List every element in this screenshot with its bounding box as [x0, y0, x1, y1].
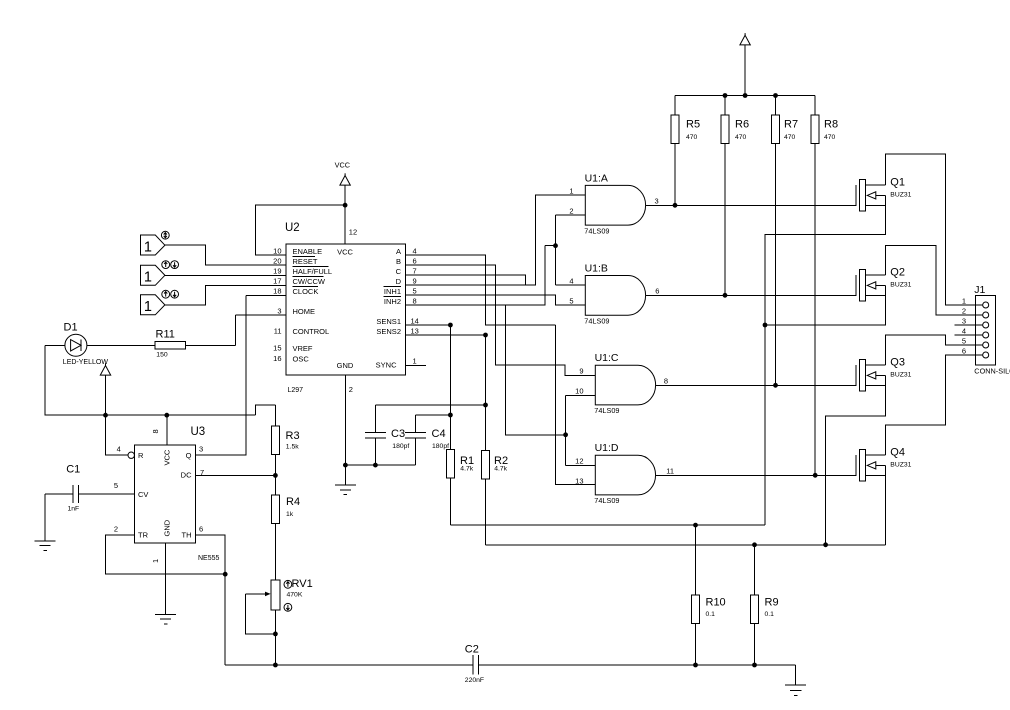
capacitor C1: [73, 485, 79, 503]
svg-text:Q: Q: [186, 451, 192, 460]
wire net INH2 (pin8) to U1 pins 2,4: [405, 215, 585, 305]
svg-text:CONN-SIL6: CONN-SIL6: [974, 367, 1010, 376]
svg-text:1nF: 1nF: [68, 506, 80, 513]
svg-text:12: 12: [349, 228, 357, 237]
wire U3 TR-TH loop: [106, 535, 226, 665]
svg-text:7: 7: [413, 266, 417, 275]
node Q2-source junction: [763, 323, 768, 328]
svg-text:8: 8: [664, 377, 668, 386]
wire Q3 source: [826, 375, 886, 544]
svg-text:LED-YELLOW: LED-YELLOW: [63, 359, 109, 366]
svg-text:R11: R11: [156, 329, 175, 341]
svg-text:470K: 470K: [287, 591, 303, 598]
svg-text:470: 470: [784, 134, 796, 141]
wire U1:B output to Q2 gate: [646, 294, 856, 296]
wire R8 leads: [814, 96, 816, 476]
svg-text:2: 2: [114, 525, 118, 534]
svg-text:C: C: [396, 267, 402, 276]
wire U3 vcc pin 8: [166, 415, 168, 445]
svg-text:12: 12: [575, 457, 583, 466]
wire VCC row left: [45, 345, 275, 415]
power rail VCC top: [675, 45, 815, 95]
svg-text:CLOCK: CLOCK: [293, 287, 319, 296]
svg-text:74LS09: 74LS09: [594, 406, 619, 415]
svg-text:74LS09: 74LS09: [584, 317, 609, 326]
wire U2 VCC pin 12: [255, 185, 345, 255]
wire R6 leads: [724, 96, 726, 296]
svg-text:4: 4: [569, 277, 573, 286]
resistor R11: [155, 341, 185, 349]
svg-text:1: 1: [144, 270, 152, 286]
ic U2 box: [286, 244, 406, 375]
svg-text:1: 1: [413, 357, 417, 366]
svg-text:4: 4: [962, 326, 966, 335]
svg-text:8: 8: [413, 296, 417, 305]
svg-text:R6: R6: [735, 119, 749, 131]
wire input1 to RESET: [165, 245, 286, 265]
svg-text:R9: R9: [765, 597, 779, 609]
svg-text:9: 9: [579, 367, 583, 376]
svg-text:R3: R3: [286, 430, 300, 442]
bubble U3 pin4: [128, 452, 134, 458]
wire R5 leads: [674, 96, 676, 206]
svg-text:B: B: [396, 257, 401, 266]
node pins10-12 junction: [563, 432, 568, 437]
svg-text:SENS1: SENS1: [376, 317, 401, 326]
wire J1 pin4 stub: [955, 334, 984, 336]
svg-text:1: 1: [151, 559, 160, 563]
svg-text:CW/CCW: CW/CCW: [293, 277, 326, 286]
resistor R5: [671, 115, 679, 144]
resistor R8: [811, 115, 819, 144]
wire R4-RV1 link: [274, 524, 276, 580]
svg-text:U1:C: U1:C: [595, 352, 619, 364]
svg-text:BUZ31: BUZ31: [890, 282, 911, 289]
svg-text:470: 470: [686, 134, 698, 141]
svg-text:RESET: RESET: [293, 257, 318, 266]
svg-text:J1: J1: [974, 284, 985, 296]
svg-text:Q4: Q4: [890, 447, 905, 459]
svg-text:2: 2: [962, 306, 966, 315]
capacitor C4: [405, 432, 426, 438]
svg-text:5: 5: [569, 297, 573, 306]
svg-text:15: 15: [273, 343, 281, 352]
svg-text:6: 6: [199, 525, 203, 534]
svg-text:9: 9: [413, 276, 417, 285]
wire C4 bottom: [414, 438, 416, 465]
resistor R3: [271, 426, 279, 455]
wire U1:A output to Q1 gate: [646, 204, 856, 206]
resistor R7: [772, 115, 780, 144]
VCC symbol top: [744, 33, 746, 35]
wire Q1 source: [765, 195, 886, 525]
VCC symbol U2: [344, 173, 346, 175]
svg-text:20: 20: [273, 256, 281, 265]
svg-text:INH1: INH1: [384, 287, 401, 296]
connector J1 pins: [983, 302, 989, 308]
svg-text:TR: TR: [138, 531, 149, 540]
node RV1/rail junction: [273, 663, 278, 668]
input glyphs 3: [162, 290, 170, 298]
wire Q3 drain to J1 pin5: [886, 335, 984, 365]
wire bottom rail: [225, 665, 795, 685]
node Q3-source junction: [823, 542, 828, 547]
ground U3: [155, 614, 176, 616]
wire U3 reset pin 4: [106, 415, 128, 455]
svg-text:L297: L297: [288, 387, 304, 394]
svg-text:RV1: RV1: [292, 578, 313, 590]
transistor Q3 BUZ31: [855, 365, 857, 386]
node R7/Q3 junction: [773, 383, 778, 388]
wire U2 GND pin 2: [344, 375, 346, 485]
wire R2 bottom: [485, 479, 487, 545]
wire net C (pin7): [405, 275, 525, 285]
wire net D (pin9) to U1 pin1: [405, 195, 585, 285]
svg-text:HALF/FULL: HALF/FULL: [293, 267, 333, 276]
capacitor C3: [365, 432, 386, 438]
svg-text:180pf: 180pf: [432, 443, 449, 450]
resistor R2: [482, 450, 490, 479]
svg-text:4.7k: 4.7k: [494, 466, 507, 473]
svg-text:VCC: VCC: [335, 161, 350, 170]
svg-text:5: 5: [962, 336, 966, 345]
svg-text:2: 2: [569, 207, 573, 216]
svg-text:TH: TH: [182, 531, 192, 540]
svg-text:CV: CV: [138, 490, 148, 499]
op-amp gate U1:D 74LS09: [595, 455, 655, 495]
svg-text:13: 13: [411, 326, 419, 335]
svg-text:R: R: [138, 451, 144, 460]
svg-text:5: 5: [114, 481, 118, 490]
svg-text:Q1: Q1: [890, 177, 905, 189]
wire J1 pin stubs inside: [976, 304, 983, 306]
ground C1: [35, 540, 56, 542]
svg-text:U1:D: U1:D: [595, 442, 619, 454]
wire net A (pin4) to U1 pin13: [405, 255, 595, 485]
svg-text:17: 17: [273, 276, 281, 285]
input connector 3 (cw/ccw): [141, 295, 165, 315]
wire R9 leads: [754, 545, 756, 665]
diode D1 LED-YELLOW: [65, 334, 87, 356]
svg-text:1: 1: [569, 187, 573, 196]
svg-text:13: 13: [575, 477, 583, 486]
wire R3-R4 link: [274, 455, 276, 495]
svg-text:1: 1: [962, 296, 966, 305]
wire Q1 drain to J1 pin1: [886, 154, 984, 305]
wire C1 row: [45, 494, 134, 541]
input connector 2 (half/full): [141, 265, 165, 285]
svg-text:220nF: 220nF: [465, 677, 484, 684]
resistor R10: [692, 595, 700, 624]
svg-text:4: 4: [413, 246, 417, 255]
node VCC-U2 junction: [343, 203, 348, 208]
wire Q4 drain to J1 pin6: [886, 355, 984, 455]
svg-text:11: 11: [666, 467, 674, 476]
svg-text:D: D: [396, 277, 402, 286]
op-amp gate U1:A 74LS09: [585, 185, 645, 225]
wire SENS1 to R1: [405, 325, 450, 450]
svg-text:470: 470: [824, 134, 836, 141]
wire RV1 wiper loop: [246, 594, 276, 634]
svg-text:R5: R5: [686, 119, 700, 131]
svg-text:3: 3: [199, 445, 203, 454]
svg-text:R10: R10: [706, 597, 726, 609]
node VCC row junctions: [103, 413, 108, 418]
svg-text:NE555: NE555: [198, 555, 220, 562]
node rail junctions: [693, 663, 698, 668]
svg-text:8: 8: [151, 429, 160, 433]
svg-text:74LS09: 74LS09: [584, 226, 609, 235]
svg-text:180pf: 180pf: [392, 443, 409, 450]
wire J1 pin3 stub: [955, 324, 984, 326]
resistor R1: [446, 450, 454, 479]
svg-text:SENS2: SENS2: [376, 327, 401, 336]
svg-text:BUZ31: BUZ31: [890, 192, 911, 199]
node R8/Q4 junction: [813, 473, 818, 478]
svg-text:BUZ31: BUZ31: [890, 372, 911, 379]
svg-text:6: 6: [962, 346, 966, 355]
wire U3 DC to R3/R4: [196, 474, 276, 476]
resistor R6: [721, 115, 729, 144]
node TR-TH junction: [223, 572, 228, 577]
wire U1:C output to Q3 gate: [656, 384, 856, 386]
svg-text:1k: 1k: [286, 511, 294, 518]
wire D1 row: [45, 315, 286, 345]
svg-text:VREF: VREF: [293, 344, 313, 353]
wire Q2 source: [765, 285, 886, 325]
wire Q4 source: [885, 465, 887, 544]
svg-text:19: 19: [273, 266, 281, 275]
node INH2 chain junction: [553, 243, 558, 248]
node GND row junctions: [343, 463, 348, 468]
svg-text:A: A: [396, 247, 401, 256]
svg-text:18: 18: [273, 286, 281, 295]
input connector 1 (enable): [141, 235, 165, 255]
node RV1 wiper junction: [273, 632, 278, 637]
wire INH2 branch to U1 pins 10,12: [506, 305, 596, 465]
op-amp gate U1:C 74LS09: [595, 365, 655, 405]
node R3/R4/DC junction: [273, 473, 278, 478]
wire C3 top: [375, 405, 485, 432]
wire R7 leads: [775, 96, 777, 386]
ic U3 box: [135, 445, 196, 543]
svg-text:C1: C1: [66, 464, 80, 476]
wire C4 top: [415, 415, 450, 432]
capacitor C2: [473, 655, 479, 675]
node SENS2 junction: [483, 333, 488, 338]
ground U2: [335, 484, 356, 486]
wire R10 leads: [695, 525, 697, 665]
svg-text:4: 4: [117, 445, 121, 454]
svg-text:5: 5: [413, 286, 417, 295]
node R9 top junction: [752, 542, 757, 547]
svg-text:SYNC: SYNC: [376, 361, 397, 370]
wire input2 to HALF/FULL: [165, 274, 286, 276]
svg-text:74LS09: 74LS09: [594, 496, 619, 505]
svg-text:CONTROL: CONTROL: [293, 327, 330, 336]
svg-text:14: 14: [411, 316, 419, 325]
svg-text:6: 6: [413, 256, 417, 265]
wire C3/C4 ground row: [345, 464, 415, 466]
svg-text:3: 3: [277, 306, 281, 315]
input glyphs 2: [162, 261, 170, 269]
svg-text:C4: C4: [432, 428, 446, 440]
potentiometer RV1: [271, 580, 280, 610]
wire input3 to CW/CCW: [165, 286, 286, 305]
svg-text:11: 11: [274, 326, 282, 335]
wire sense row 2: [486, 544, 886, 546]
svg-text:2: 2: [349, 385, 353, 394]
svg-text:150: 150: [156, 352, 168, 359]
wire U1:D output to Q4 gate: [656, 474, 856, 476]
svg-text:10: 10: [575, 387, 583, 396]
VCC symbol left: [105, 363, 107, 365]
junction dots VCC rail: [723, 93, 728, 98]
svg-text:R8: R8: [824, 119, 838, 131]
node R6/Q2 junction: [723, 293, 728, 298]
svg-text:U3: U3: [191, 426, 206, 438]
svg-text:1: 1: [144, 239, 152, 255]
svg-text:C2: C2: [465, 644, 479, 656]
svg-text:GND: GND: [337, 361, 354, 370]
svg-text:Q3: Q3: [890, 357, 905, 369]
wire R1 bottom: [449, 478, 451, 525]
svg-text:1.5k: 1.5k: [286, 444, 299, 451]
wire U3 Q to CLOCK: [196, 296, 286, 456]
svg-text:BUZ31: BUZ31: [890, 462, 911, 469]
wire RV1 bottom lead: [274, 610, 276, 665]
node C4/R1 junction: [448, 413, 453, 418]
transistor Q4 BUZ31: [855, 455, 857, 476]
svg-text:3: 3: [655, 197, 659, 206]
wire Q2 drain to J1 pin2: [886, 246, 984, 316]
wire net INH1 (pin5) to U1 pin5: [405, 295, 585, 305]
svg-text:470: 470: [735, 134, 747, 141]
connector J1 box: [976, 295, 996, 365]
svg-text:C3: C3: [391, 428, 405, 440]
svg-text:Q2: Q2: [890, 267, 905, 279]
svg-text:16: 16: [273, 354, 281, 363]
svg-text:U2: U2: [285, 222, 300, 234]
wire net B (pin6) to U1 pin9: [405, 265, 595, 375]
wire SENS2 to R2: [405, 335, 485, 450]
node C3/R2 junction: [483, 403, 488, 408]
ground right: [785, 684, 806, 686]
node R10 top junction: [693, 523, 698, 528]
svg-text:U1:A: U1:A: [585, 172, 608, 184]
svg-text:1: 1: [144, 299, 152, 315]
svg-text:D1: D1: [64, 322, 78, 334]
resistor R4: [271, 495, 279, 523]
svg-text:6: 6: [655, 287, 659, 296]
svg-text:0.1: 0.1: [706, 611, 716, 618]
svg-text:DC: DC: [181, 470, 192, 479]
svg-text:HOME: HOME: [293, 307, 316, 316]
wire sense row 1: [450, 524, 765, 526]
input glyph 1: [161, 231, 169, 239]
transistor Q1 BUZ31: [855, 185, 857, 206]
svg-text:4.7k: 4.7k: [460, 466, 473, 473]
svg-text:R7: R7: [784, 119, 798, 131]
svg-text:3: 3: [962, 316, 966, 325]
svg-text:VCC: VCC: [163, 449, 172, 465]
node R5/Q1 junction: [673, 203, 678, 208]
wire SYNC stub: [405, 364, 426, 366]
wire U3 GND pin 1: [165, 543, 167, 614]
svg-text:ENABLE: ENABLE: [293, 247, 323, 256]
wire C3 bottom: [374, 438, 376, 465]
svg-text:10: 10: [273, 246, 281, 255]
svg-text:OSC: OSC: [293, 355, 310, 364]
svg-text:VCC: VCC: [337, 248, 353, 257]
resistor R9: [751, 595, 759, 624]
node SENS1 junction: [448, 323, 453, 328]
op-amp gate U1:B 74LS09: [585, 276, 645, 316]
svg-text:U1:B: U1:B: [585, 263, 608, 275]
transistor Q2 BUZ31: [855, 275, 857, 296]
wire R3 top lead: [274, 405, 276, 426]
svg-text:0.1: 0.1: [765, 611, 775, 618]
svg-text:GND: GND: [163, 519, 172, 536]
svg-text:R4: R4: [286, 496, 300, 508]
svg-text:INH2: INH2: [384, 297, 401, 306]
